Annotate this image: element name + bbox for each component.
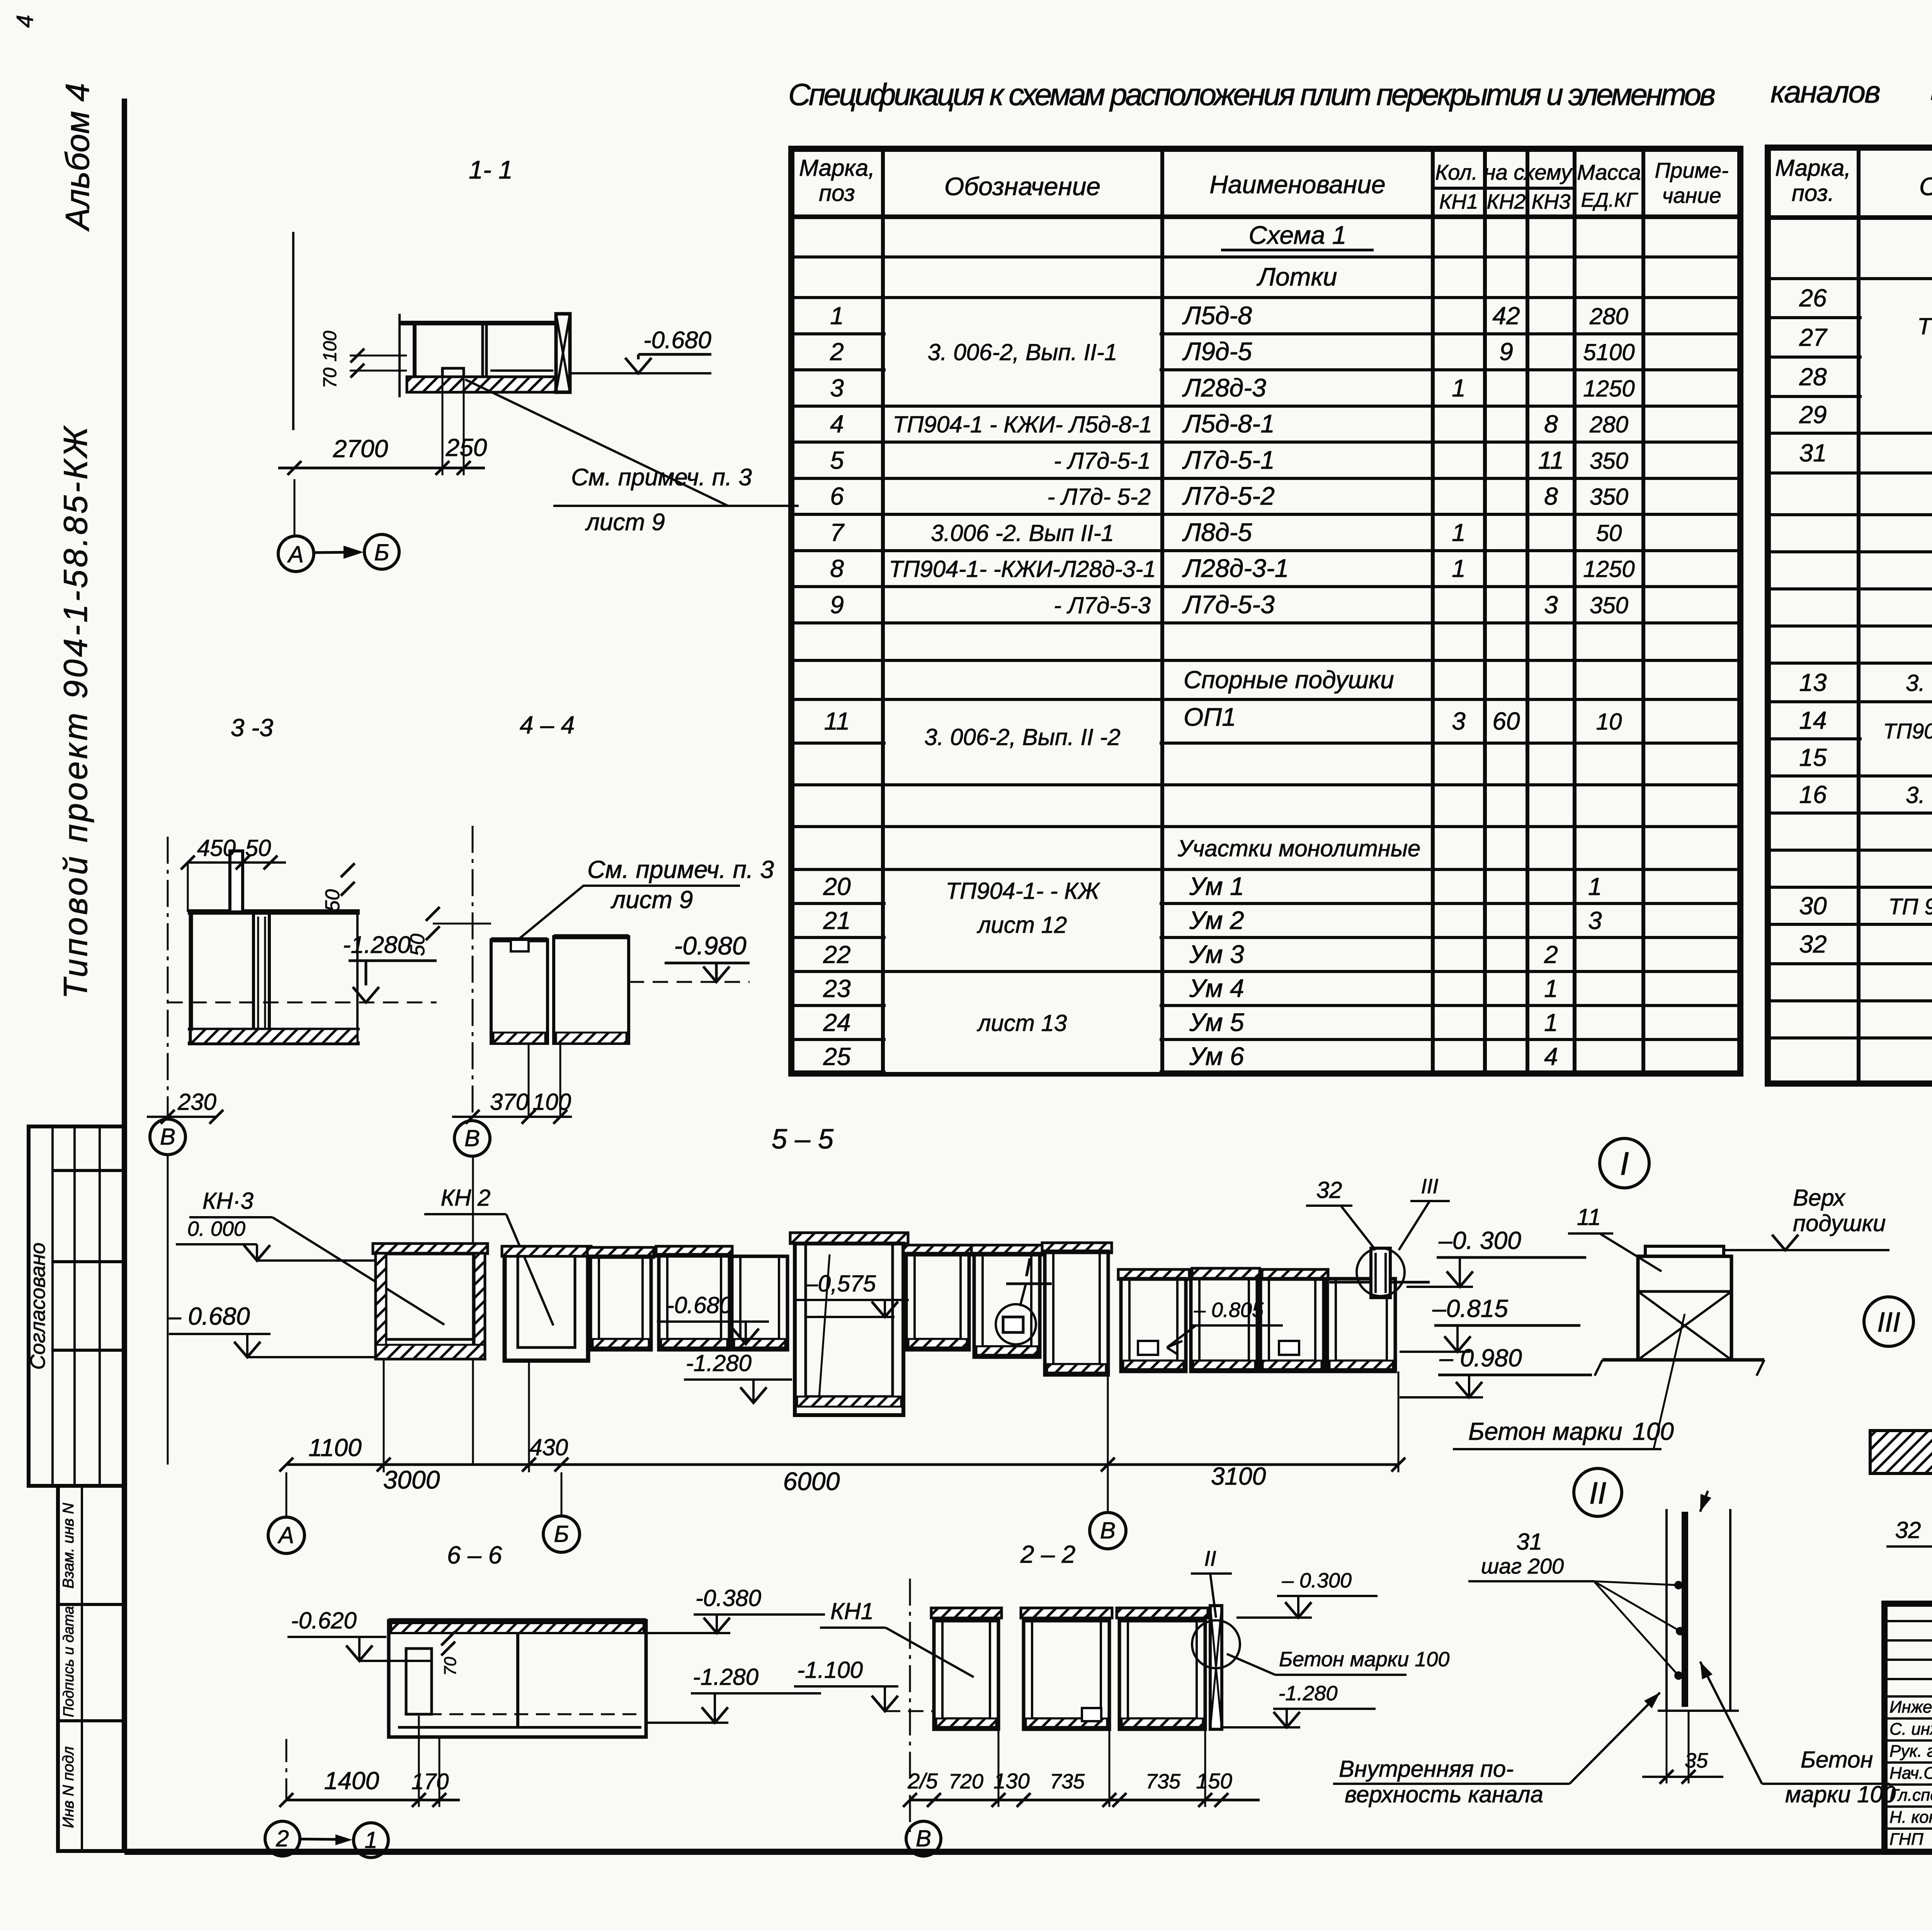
section 4-4 axis dash line — [472, 826, 474, 1117]
svg-text:Марка,: Марка, — [799, 155, 875, 181]
leader inside pit — [819, 1254, 830, 1397]
svg-text:Л8д-5: Л8д-5 — [1182, 518, 1252, 546]
svg-text:Л7д-5-3: Л7д-5-3 — [1182, 590, 1275, 619]
section 2-2 dims — [910, 1799, 1260, 1802]
svg-text:29: 29 — [1799, 401, 1827, 429]
detail III bubble — [1864, 1297, 1913, 1346]
svg-text:10: 10 — [1596, 709, 1622, 735]
svg-text:1: 1 — [1588, 873, 1602, 900]
svg-text:50: 50 — [1596, 520, 1622, 546]
svg-text:13: 13 — [1799, 669, 1827, 696]
svg-text:Участки монолитные: Участки монолитные — [1177, 835, 1420, 861]
svg-text:720: 720 — [949, 1770, 983, 1793]
svg-text:250: 250 — [446, 434, 487, 461]
svg-text:Лотки: Лотки — [1257, 262, 1337, 291]
svg-text:Ум 6: Ум 6 — [1189, 1042, 1244, 1070]
svg-text:21: 21 — [823, 907, 850, 934]
svg-text:II: II — [1589, 1476, 1606, 1510]
svg-text:26: 26 — [1799, 284, 1827, 312]
svg-text:- Л7д-5-1: - Л7д-5-1 — [1054, 448, 1151, 474]
svg-text:1: 1 — [1452, 374, 1466, 402]
svg-text:1: 1 — [1544, 975, 1558, 1002]
svg-text:ТП 904-1- - КЖ: ТП 904-1- - КЖ — [1917, 313, 1932, 339]
section 2-2 box2 — [1021, 1608, 1112, 1618]
section 3-3 top stub — [230, 851, 243, 912]
svg-text:Наименование: Наименование — [1209, 170, 1386, 199]
svg-text:- Л7д- 5-2: - Л7д- 5-2 — [1047, 484, 1151, 510]
svg-text:-1.280: -1.280 — [693, 1664, 759, 1690]
svg-text:шаг 200: шаг 200 — [1481, 1554, 1564, 1578]
svg-text:Л28д-3: Л28д-3 — [1182, 373, 1266, 402]
svg-text:2/5: 2/5 — [907, 1769, 938, 1793]
svg-text:350: 350 — [1590, 448, 1628, 474]
svg-text:См. примеч. п. 3: См. примеч. п. 3 — [571, 464, 752, 491]
section 1-1 leader note — [465, 379, 799, 506]
section 2-2 box1 — [931, 1608, 1002, 1618]
section 3-3 I-beam element — [252, 912, 255, 1029]
5-5 box5 — [732, 1256, 787, 1350]
svg-text:В: В — [916, 1826, 931, 1851]
svg-text:-0.680: -0.680 — [667, 1292, 732, 1318]
svg-text:100: 100 — [320, 331, 340, 362]
svg-text:Л9д-5: Л9д-5 — [1182, 337, 1252, 366]
svg-text:5 – 5: 5 – 5 — [772, 1124, 834, 1155]
5-5 dim line — [286, 1463, 1398, 1466]
svg-text:370: 370 — [490, 1089, 529, 1115]
svg-text:ТП 904.1- -КЖИ-МС6: ТП 904.1- -КЖИ-МС6 — [1888, 894, 1932, 919]
5-5 box7 — [903, 1245, 972, 1255]
svg-text:16: 16 — [1799, 781, 1827, 808]
svg-text:2: 2 — [830, 338, 844, 366]
svg-text:Б: Б — [374, 539, 389, 565]
svg-text:Л7д-5-1: Л7д-5-1 — [1182, 446, 1275, 474]
5-5 box13 — [1327, 1279, 1395, 1371]
svg-text:1: 1 — [364, 1827, 377, 1853]
svg-text:Б: Б — [554, 1521, 569, 1547]
svg-text:– 0.805: – 0.805 — [1194, 1298, 1264, 1322]
svg-text:С. инж.: С. инж. — [1889, 1720, 1932, 1739]
svg-text:Приме-: Приме- — [1655, 158, 1728, 182]
svg-text:4 – 4: 4 – 4 — [520, 711, 575, 739]
svg-text:32: 32 — [1316, 1177, 1342, 1203]
section 1-1 left wall — [413, 323, 417, 392]
section 3-3 axis bubble В — [150, 1119, 185, 1155]
svg-text:-1.100: -1.100 — [797, 1657, 863, 1683]
svg-text:14: 14 — [1799, 706, 1827, 734]
svg-text:4: 4 — [830, 410, 844, 438]
svg-text:2 – 2: 2 – 2 — [1020, 1540, 1075, 1568]
svg-text:1100: 1100 — [308, 1434, 362, 1461]
svg-text:3. 006-2 Вып. II-1: 3. 006-2 Вып. II-1 — [1906, 670, 1932, 696]
svg-text:– 0.300: – 0.300 — [1282, 1569, 1352, 1592]
svg-text:Бетон марки: Бетон марки — [1468, 1417, 1622, 1445]
section 3-3 axis dash line — [167, 837, 169, 1117]
svg-text:0. 000: 0. 000 — [187, 1217, 245, 1240]
svg-text:2: 2 — [276, 1826, 289, 1851]
svg-text:50: 50 — [406, 934, 429, 956]
svg-text:Внутренняя по-: Внутренняя по- — [1339, 1756, 1514, 1782]
detail II bubble — [1574, 1468, 1622, 1516]
section 1-1 bottom slab hatch — [407, 377, 569, 392]
svg-text:ГНП: ГНП — [1889, 1830, 1923, 1849]
svg-text:1250: 1250 — [1583, 376, 1634, 402]
5-5 box8 — [971, 1245, 1043, 1255]
margin table взам/подпись/инв — [58, 1486, 124, 1851]
svg-text:3: 3 — [1588, 907, 1602, 934]
svg-text:-1.280: -1.280 — [343, 932, 411, 958]
svg-text:– 0.680: – 0.680 — [167, 1302, 250, 1330]
svg-text:6: 6 — [830, 482, 844, 510]
svg-text:III: III — [1877, 1307, 1900, 1338]
page frame left border — [122, 99, 127, 1852]
svg-text:8: 8 — [1544, 482, 1558, 510]
5-5 box4 — [656, 1246, 732, 1256]
svg-text:11: 11 — [824, 707, 850, 735]
svg-text:Ум 1: Ум 1 — [1189, 872, 1244, 900]
svg-text:11: 11 — [1538, 446, 1564, 474]
svg-text:Инженер: Инженер — [1889, 1698, 1932, 1717]
svg-text:3000: 3000 — [383, 1465, 440, 1494]
svg-text:КН3: КН3 — [1532, 190, 1571, 213]
svg-text:350: 350 — [1590, 592, 1628, 618]
svg-text:3: 3 — [1452, 707, 1466, 735]
section 6-6 channel body — [389, 1618, 646, 1623]
svg-text:марки 100: марки 100 — [1785, 1781, 1896, 1807]
svg-text:– 0.980: – 0.980 — [1439, 1344, 1522, 1372]
svg-text:170: 170 — [412, 1769, 449, 1794]
svg-text:III: III — [1421, 1175, 1438, 1198]
section 6-6 axis bubbles 2 -> 1 — [265, 1821, 300, 1856]
svg-text:Согласовано: Согласовано — [26, 1242, 49, 1370]
right spec table grid — [1768, 148, 1932, 1084]
svg-text:280: 280 — [1589, 303, 1628, 329]
section 1-1 axis line — [292, 232, 294, 430]
svg-text:- Л7д-5-3: - Л7д-5-3 — [1054, 592, 1151, 618]
svg-text:лист 12: лист 12 — [977, 912, 1067, 938]
svg-text:735: 735 — [1050, 1770, 1085, 1793]
svg-text:28: 28 — [1799, 363, 1827, 391]
svg-text:3100: 3100 — [1211, 1462, 1266, 1490]
svg-text:Гл.спецт: Гл.спецт — [1889, 1786, 1932, 1805]
svg-text:4: 4 — [12, 15, 38, 27]
svg-text:1: 1 — [830, 302, 844, 330]
svg-text:6000: 6000 — [783, 1467, 840, 1495]
svg-text:280: 280 — [1589, 412, 1628, 437]
svg-text:3 -3: 3 -3 — [231, 714, 274, 742]
svg-text:поз.: поз. — [1792, 180, 1834, 206]
svg-text:Подпись и дата: Подпись и дата — [61, 1606, 77, 1717]
detail I circled joint on box7 — [1003, 1317, 1023, 1332]
svg-text:КН1 – КН3: КН1 – КН3 — [1930, 72, 1932, 106]
svg-text:9: 9 — [1499, 338, 1513, 366]
5-5 box9 — [1042, 1243, 1112, 1253]
svg-text:-0.620: -0.620 — [291, 1608, 357, 1633]
svg-text:КН2: КН2 — [1487, 190, 1526, 213]
svg-text:Спецификация к схемам распо: Спецификация к схемам расположения плит … — [788, 77, 1716, 112]
detail III slab hatched — [1870, 1431, 1932, 1473]
svg-text:11: 11 — [1577, 1204, 1601, 1230]
svg-text:верхность канала: верхность канала — [1345, 1781, 1543, 1807]
5-5 box1 lotok КН3 — [373, 1244, 488, 1254]
svg-text:3.006 -2. Вып II-1: 3.006 -2. Вып II-1 — [931, 520, 1114, 546]
svg-text:2700: 2700 — [333, 435, 388, 463]
svg-text:В: В — [464, 1125, 480, 1151]
svg-text:3: 3 — [830, 374, 844, 402]
svg-text:Альбом 4: Альбом 4 — [59, 83, 96, 232]
svg-text:КН1: КН1 — [830, 1598, 874, 1624]
svg-text:23: 23 — [823, 975, 851, 1002]
section 4-4 leader note — [520, 886, 740, 938]
svg-text:Верх: Верх — [1793, 1185, 1846, 1211]
5-5 box11 — [1191, 1279, 1257, 1371]
svg-text:Масса: Масса — [1577, 160, 1641, 184]
svg-text:Спорные подушки: Спорные подушки — [1184, 666, 1394, 694]
svg-text:Схема 1: Схема 1 — [1249, 221, 1347, 249]
section 1-1 end block with cross — [556, 314, 570, 392]
svg-text:8: 8 — [830, 555, 844, 582]
svg-text:2: 2 — [1544, 941, 1558, 968]
section 1-1 right inner floor — [490, 369, 553, 372]
svg-text:25: 25 — [823, 1043, 851, 1070]
svg-text:1: 1 — [1452, 555, 1466, 582]
svg-text:–0,575: –0,575 — [804, 1271, 876, 1296]
detail I cushion — [1645, 1246, 1724, 1256]
svg-text:Взам. инв N: Взам. инв N — [60, 1503, 77, 1589]
svg-text:II: II — [1204, 1546, 1216, 1570]
svg-text:100: 100 — [1633, 1417, 1674, 1445]
5-5 box12 — [1260, 1279, 1324, 1371]
svg-text:230: 230 — [177, 1089, 216, 1115]
svg-text:лист 9: лист 9 — [585, 509, 665, 536]
detail I ground line — [1602, 1358, 1764, 1362]
svg-text:Ум 3: Ум 3 — [1189, 940, 1244, 968]
svg-text:4: 4 — [1544, 1043, 1558, 1070]
svg-text:6 – 6: 6 – 6 — [447, 1541, 502, 1569]
svg-text:1- 1: 1- 1 — [469, 155, 513, 184]
section 2-2 end wall element — [1210, 1606, 1222, 1729]
svg-text:Ум 5: Ум 5 — [1189, 1008, 1244, 1036]
section 4-4 left box — [491, 937, 548, 943]
page frame bottom border — [124, 1849, 1932, 1855]
svg-text:КН·3: КН·3 — [202, 1188, 253, 1214]
svg-text:Инв N подл: Инв N подл — [60, 1746, 77, 1828]
svg-text:Кол. на схему: Кол. на схему — [1435, 160, 1573, 184]
title block outer frame — [1884, 1604, 1932, 1852]
section 3-3 channel body — [188, 909, 360, 915]
svg-text:КН 2: КН 2 — [441, 1185, 491, 1211]
section 1-1 joint insert — [442, 368, 464, 377]
svg-text:подушки: подушки — [1793, 1210, 1886, 1236]
section 1-1 axis bubbles А Б — [278, 536, 314, 572]
svg-text:А: А — [277, 1522, 294, 1548]
detail II wall — [1665, 1509, 1668, 1711]
svg-text:1400: 1400 — [324, 1767, 379, 1795]
svg-text:27: 27 — [1799, 323, 1828, 351]
svg-text:ТП904-1- - КЖ: ТП904-1- - КЖ — [946, 878, 1100, 904]
section 1-1 mid joint — [481, 323, 484, 392]
svg-text:Нач.ОСП: Нач.ОСП — [1889, 1764, 1932, 1783]
svg-text:8: 8 — [1544, 410, 1558, 438]
detail II rebar dots — [1674, 1581, 1683, 1589]
section 5-5 axis line x1224 — [472, 1157, 474, 1465]
svg-text:Ум 4: Ум 4 — [1189, 974, 1244, 1002]
section 1-1 dim line 2700 250 — [442, 377, 444, 475]
svg-text:32: 32 — [1895, 1517, 1921, 1543]
svg-text:Обозначение: Обозначение — [944, 172, 1100, 201]
согласовано table — [29, 1126, 124, 1486]
svg-text:Обозначение: Обозначение — [1919, 172, 1932, 201]
svg-text:1: 1 — [1452, 519, 1466, 546]
svg-text:31: 31 — [1517, 1529, 1543, 1555]
svg-text:3. 006-2, Вып. II-1: 3. 006-2, Вып. II-1 — [928, 339, 1117, 365]
svg-text:450: 450 — [197, 835, 236, 861]
svg-text:поз: поз — [819, 180, 855, 206]
svg-text:–0. 300: –0. 300 — [1438, 1227, 1521, 1254]
detail I bubble — [1600, 1138, 1649, 1188]
svg-text:735: 735 — [1146, 1770, 1181, 1793]
svg-text:См. примеч. п. 3: См. примеч. п. 3 — [587, 856, 774, 883]
svg-text:1: 1 — [1544, 1009, 1558, 1036]
svg-text:Л5д-8: Л5д-8 — [1182, 301, 1252, 330]
svg-text:В: В — [160, 1124, 175, 1150]
svg-text:1250: 1250 — [1583, 556, 1634, 582]
svg-text:КН1: КН1 — [1439, 190, 1478, 213]
svg-text:-0.980: -0.980 — [674, 931, 746, 960]
svg-text:5100: 5100 — [1583, 339, 1634, 365]
svg-text:Бетон марки 100: Бетон марки 100 — [1279, 1648, 1449, 1671]
5-5 box6 deep pit — [790, 1233, 908, 1244]
svg-text:ТП904-1- -КЖИ-Л28д-3-1: ТП904-1- -КЖИ-Л28д-3-1 — [889, 556, 1156, 582]
svg-text:9: 9 — [830, 591, 844, 619]
svg-text:32: 32 — [1799, 930, 1827, 958]
svg-text:Рук. гр.: Рук. гр. — [1889, 1742, 1932, 1761]
svg-text:Л5д-8-1: Л5д-8-1 — [1182, 409, 1275, 438]
svg-text:-0.380: -0.380 — [696, 1585, 761, 1611]
svg-text:–0.815: –0.815 — [1432, 1295, 1508, 1322]
5-5 box2 U-channel — [502, 1246, 591, 1256]
left table merged cell whiteouts — [886, 301, 1160, 403]
патрубок element circled (detail III on 5-5) — [1371, 1248, 1390, 1298]
section 2-2 axis bubble В — [906, 1821, 941, 1856]
svg-text:430: 430 — [529, 1434, 568, 1460]
section 1-1 left end cap — [398, 314, 401, 397]
svg-text:Марка,: Марка, — [1775, 155, 1851, 181]
svg-text:20: 20 — [823, 873, 851, 900]
svg-text:70: 70 — [441, 1657, 460, 1676]
section 2-2 axis line — [909, 1579, 911, 1832]
svg-text:30: 30 — [1799, 892, 1827, 920]
left spec table grid — [791, 149, 1740, 1074]
svg-text:7: 7 — [830, 519, 845, 546]
svg-text:Л28д-3-1: Л28д-3-1 — [1182, 554, 1289, 582]
svg-text:ОП1: ОП1 — [1184, 703, 1236, 731]
svg-text:22: 22 — [823, 941, 850, 968]
right table merged cell whiteouts — [1862, 280, 1932, 432]
svg-text:3. 006-2, Вып. II -2: 3. 006-2, Вып. II -2 — [924, 724, 1120, 750]
5-5 right group slabs — [1118, 1269, 1189, 1279]
svg-text:А: А — [287, 541, 304, 567]
5-5 box10 — [1121, 1279, 1186, 1371]
svg-text:-1.280: -1.280 — [1278, 1682, 1337, 1705]
svg-text:Н. контр: Н. контр — [1889, 1808, 1932, 1827]
svg-text:I: I — [1620, 1145, 1629, 1182]
svg-text:-1.280: -1.280 — [686, 1350, 752, 1376]
svg-text:3. 006-2 Вып. II-1: 3. 006-2 Вып. II-1 — [1906, 782, 1932, 808]
svg-text:Бетон: Бетон — [1801, 1747, 1873, 1773]
section 6-6 dim 1400 170 — [286, 1799, 460, 1802]
5-5 box3 — [587, 1247, 654, 1257]
svg-text:-0.680: -0.680 — [643, 327, 711, 354]
svg-text:В: В — [1100, 1518, 1116, 1543]
svg-text:60: 60 — [1492, 707, 1520, 735]
svg-text:31: 31 — [1799, 439, 1827, 467]
svg-text:70: 70 — [320, 367, 340, 388]
svg-text:Л7д-5-2: Л7д-5-2 — [1182, 481, 1275, 510]
svg-text:350: 350 — [1590, 484, 1628, 510]
svg-text:150: 150 — [1196, 1769, 1232, 1793]
svg-text:ТП904-1 - КЖИ- Л5д-8-1: ТП904-1 - КЖИ- Л5д-8-1 — [893, 412, 1152, 437]
section 5-5 axis line x434 — [167, 1155, 169, 1465]
svg-text:3: 3 — [1544, 591, 1558, 619]
section 4-4 right box — [554, 934, 629, 939]
5-5 bottom axis bubbles — [268, 1517, 304, 1553]
svg-text:24: 24 — [823, 1009, 850, 1036]
section 1-1 channel top slab line — [401, 321, 556, 325]
svg-text:лист 13: лист 13 — [977, 1010, 1067, 1036]
svg-text:50: 50 — [321, 889, 344, 912]
svg-text:чание: чание — [1662, 183, 1721, 208]
section 2-2 box3 — [1117, 1608, 1208, 1618]
svg-text:лист 9: лист 9 — [610, 886, 693, 914]
svg-text:Ум 2: Ум 2 — [1189, 906, 1244, 934]
svg-text:каналов: каналов — [1770, 75, 1881, 109]
svg-text:42: 42 — [1492, 302, 1520, 330]
svg-text:5: 5 — [830, 446, 844, 474]
section 4-4 axis bubble В — [454, 1121, 490, 1156]
svg-text:ТП904-1- КЖИ П5д 8-1: ТП904-1- КЖИ П5д 8-1 — [1883, 719, 1932, 743]
svg-text:ЕД.КГ: ЕД.КГ — [1581, 189, 1638, 211]
svg-text:15: 15 — [1799, 743, 1827, 771]
